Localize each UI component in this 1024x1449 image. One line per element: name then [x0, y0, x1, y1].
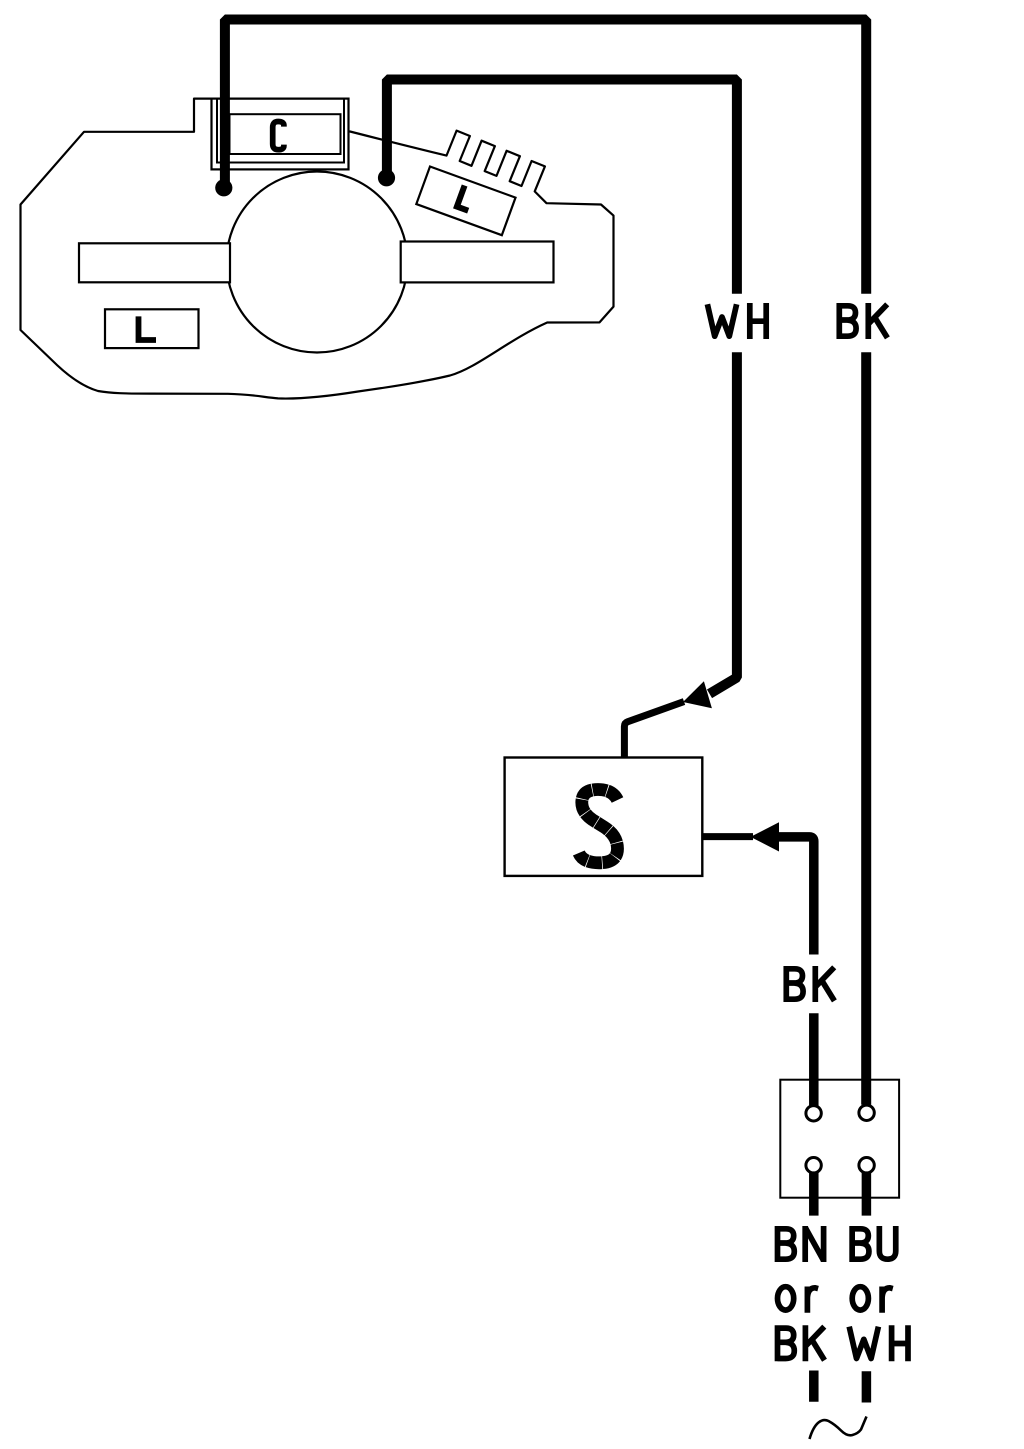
stator bar right: [401, 242, 554, 283]
label BU: [852, 1226, 896, 1262]
capacitor C inner box: [230, 114, 341, 154]
AC mains squiggle: [810, 1417, 867, 1440]
connector pin 3: [806, 1158, 821, 1173]
label S (switch): [579, 790, 618, 863]
label BN: [778, 1226, 824, 1262]
motor M (rotor circle): [227, 172, 408, 353]
wire BK from switch arrow down to connector: [778, 837, 814, 1110]
label or (left): [778, 1287, 819, 1313]
connector block X1: [780, 1080, 899, 1198]
wire WH: motor terminal up, across, down to arrow: [387, 80, 737, 694]
switch S box: [505, 758, 703, 876]
label L (inductor L2): [457, 185, 476, 210]
dashed mains lead right: [862, 1371, 872, 1402]
dashed mains lead left: [809, 1371, 819, 1402]
wire from switch S right side: [704, 833, 754, 840]
label BK (black wire right): [839, 303, 887, 339]
label L (inductor L1): [139, 316, 157, 340]
inductor L1 box (lamp): [105, 309, 199, 348]
appliance body outline (motor housing with heater comb): [21, 99, 614, 399]
connector stub wire bottom right: [862, 1168, 872, 1216]
connector pin 2: [859, 1105, 874, 1120]
label WH (bottom right): [849, 1325, 908, 1361]
arrow into switch top wire: [683, 681, 712, 708]
label or (right): [852, 1287, 893, 1313]
wire BK main: capacitor top terminal up, across, down right side: [225, 20, 866, 1105]
connector stub wire bottom left: [809, 1168, 819, 1216]
capacitor C outer case: [212, 99, 349, 170]
junction dot motor terminal: [378, 169, 395, 186]
label BK (bottom left): [778, 1325, 825, 1361]
wire from arrow to switch S top: [624, 702, 684, 759]
label C (capacitor): [273, 122, 284, 150]
arrow into switch right wire: [751, 822, 780, 851]
connector pin 4: [859, 1158, 874, 1173]
junction dot capacitor terminal: [215, 179, 232, 196]
label BK (switch wire): [786, 966, 834, 1002]
inductor L2 box (tilted, heater): [416, 167, 515, 236]
stator bar left: [79, 243, 230, 282]
connector pin 1: [806, 1106, 821, 1121]
label WH (white wire): [707, 303, 766, 339]
capacitor C middle case: [217, 99, 344, 163]
